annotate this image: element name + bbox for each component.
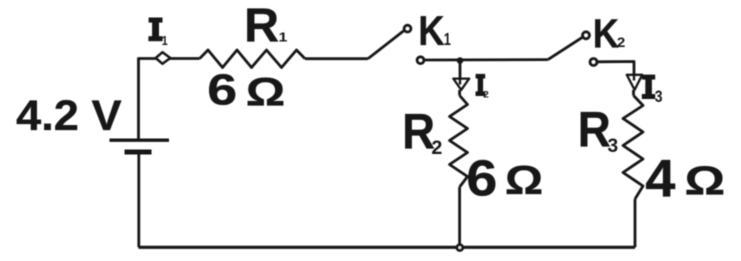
arrow I3 (hollow, pointing down) — [627, 75, 642, 90]
switch K2 top contact circle — [583, 32, 590, 39]
svg-text:4: 4 — [645, 150, 675, 208]
label I3 (current) — [642, 75, 655, 99]
svg-text:1: 1 — [444, 30, 452, 49]
svg-text:Ω: Ω — [246, 71, 285, 114]
switch K1 lower contact circle — [417, 57, 424, 64]
battery short plate — [125, 150, 152, 155]
wire junction down to I2 arrow — [459, 60, 462, 83]
switch K1 top contact circle — [404, 25, 411, 32]
node junction I2 branch — [457, 57, 464, 64]
bottom wire — [139, 246, 636, 249]
svg-text:Ω: Ω — [685, 157, 726, 203]
svg-text:6: 6 — [207, 66, 237, 114]
node junction bottom (R2 to bottom wire) — [457, 245, 463, 251]
switch K2 lower contact circle — [590, 59, 597, 66]
wire K2 contact right then corner down to I3 arrow — [597, 62, 634, 79]
wire R1 to switch K1 blade — [305, 57, 368, 60]
svg-text:2: 2 — [617, 36, 625, 51]
wire I3 arrow to R3 — [632, 90, 635, 96]
svg-text:K: K — [418, 9, 444, 55]
arrow I1 (hollow diamond, pointing right) — [156, 52, 171, 64]
svg-text:2: 2 — [483, 90, 489, 101]
svg-text:K: K — [593, 12, 619, 57]
label I1 (current) — [148, 18, 162, 42]
svg-text:R: R — [402, 104, 435, 159]
wire top-left horizontal from battery top corner to resistor R1 — [139, 59, 200, 141]
resistor R1 — [200, 50, 306, 68]
svg-text:3: 3 — [608, 136, 619, 157]
svg-text:4.2 V: 4.2 V — [16, 92, 122, 140]
svg-text:6: 6 — [466, 150, 497, 207]
battery long plate — [110, 138, 170, 141]
resistor R2 — [450, 96, 468, 188]
label I2 (current) — [476, 74, 486, 96]
wire R2 to bottom wire — [458, 187, 461, 247]
svg-text:2: 2 — [431, 137, 442, 159]
svg-text:1: 1 — [162, 34, 168, 48]
svg-text:3: 3 — [655, 88, 663, 107]
wire I2 arrow to R2 — [458, 90, 461, 96]
svg-text:1: 1 — [279, 31, 288, 45]
resistor R3 — [623, 96, 643, 200]
wire stub into I2 arrow — [459, 79, 461, 85]
svg-text:R: R — [578, 103, 611, 158]
switch K1 blade (diagonal) — [368, 31, 404, 59]
arrow I2 (hollow, pointing down) — [453, 79, 469, 90]
wire K1 to K2 — [424, 58, 548, 61]
wire stub into I3 arrow — [633, 75, 635, 80]
wire R3 to bottom right corner — [634, 199, 637, 247]
switch K2 blade (diagonal) — [548, 37, 582, 59]
svg-text:R: R — [244, 0, 279, 53]
svg-text:Ω: Ω — [505, 158, 543, 203]
wire battery to bottom wire — [137, 152, 140, 247]
